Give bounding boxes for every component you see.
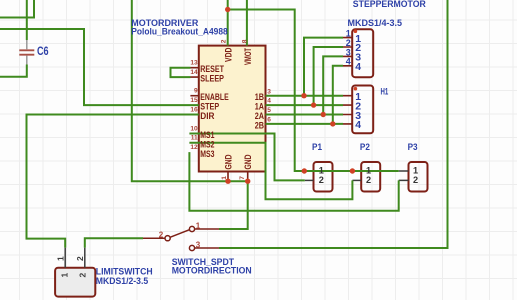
svg-text:STEPPERMOTOR: STEPPERMOTOR: [353, 0, 426, 9]
svg-text:7: 7: [239, 176, 246, 180]
svg-text:10: 10: [190, 125, 198, 132]
svg-text:2: 2: [319, 175, 324, 185]
svg-text:8: 8: [241, 39, 248, 43]
svg-text:P1: P1: [312, 142, 322, 152]
svg-text:2: 2: [220, 39, 227, 43]
svg-text:MS3: MS3: [200, 149, 214, 160]
svg-text:2: 2: [413, 175, 418, 185]
svg-text:GND: GND: [243, 154, 254, 169]
svg-text:DIR: DIR: [200, 111, 214, 122]
svg-text:VMOT: VMOT: [243, 48, 254, 65]
svg-text:12: 12: [190, 144, 198, 151]
svg-text:2B: 2B: [255, 120, 264, 131]
svg-text:H1: H1: [381, 87, 389, 97]
svg-text:2: 2: [75, 256, 85, 261]
svg-text:P2: P2: [360, 142, 370, 152]
svg-text:1: 1: [55, 256, 65, 261]
svg-text:4: 4: [355, 61, 361, 73]
svg-text:14: 14: [190, 69, 198, 76]
svg-text:3: 3: [196, 241, 201, 250]
svg-text:15: 15: [190, 97, 198, 104]
svg-text:1: 1: [60, 273, 70, 278]
svg-text:1: 1: [196, 221, 201, 230]
svg-text:VDD: VDD: [224, 47, 235, 62]
svg-text:16: 16: [190, 106, 198, 113]
svg-text:2: 2: [366, 175, 371, 185]
svg-text:13: 13: [190, 60, 198, 67]
svg-text:3: 3: [267, 88, 271, 95]
svg-text:GND: GND: [223, 154, 234, 169]
svg-text:SLEEP: SLEEP: [200, 74, 224, 85]
svg-text:9: 9: [194, 88, 198, 95]
svg-text:1: 1: [221, 176, 228, 180]
svg-text:11: 11: [191, 135, 198, 142]
svg-text:4: 4: [267, 98, 271, 105]
svg-text:2: 2: [159, 231, 164, 240]
svg-text:MKDS1/2-3.5: MKDS1/2-3.5: [96, 276, 148, 286]
svg-text:2: 2: [77, 273, 87, 278]
svg-text:4: 4: [355, 119, 361, 131]
svg-text:4: 4: [346, 57, 351, 67]
svg-text:C6: C6: [37, 44, 49, 58]
svg-text:MKDS1/4-3.5: MKDS1/4-3.5: [348, 18, 403, 28]
svg-text:6: 6: [267, 117, 271, 124]
svg-text:Pololu_Breakout_A4988: Pololu_Breakout_A4988: [131, 26, 227, 36]
svg-text:P3: P3: [408, 142, 418, 152]
svg-text:5: 5: [267, 107, 271, 114]
svg-text:MOTORDIRECTION: MOTORDIRECTION: [172, 266, 252, 276]
